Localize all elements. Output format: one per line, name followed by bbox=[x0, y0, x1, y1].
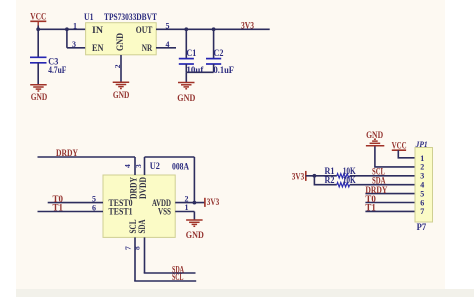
svg-text:P7: P7 bbox=[417, 222, 427, 232]
ground GND (C1/C2) bbox=[178, 83, 195, 89]
svg-text:3V3: 3V3 bbox=[207, 197, 220, 207]
junction C2 node bbox=[212, 27, 216, 31]
wire DVDD loop horizontal bbox=[145, 156, 195, 158]
wire T0 to pin 6 bbox=[365, 202, 415, 204]
svg-text:7: 7 bbox=[420, 207, 424, 216]
svg-text:3V3: 3V3 bbox=[292, 171, 305, 181]
ground GND (C3) bbox=[30, 85, 47, 91]
svg-text:SDA: SDA bbox=[372, 175, 386, 185]
junction node VCC/IN bbox=[36, 27, 40, 31]
wire link to ground bbox=[185, 72, 187, 82]
power port 3V3 (AVDD) bbox=[205, 197, 220, 207]
wire DRDY to pin 5 bbox=[365, 193, 415, 195]
svg-text:VCC: VCC bbox=[392, 140, 407, 150]
svg-text:6: 6 bbox=[420, 198, 424, 207]
junction EN branch bbox=[65, 27, 69, 31]
wire VCC to IN pin bbox=[38, 28, 86, 30]
regulator U1 TPS73033DBVT body bbox=[84, 12, 157, 55]
power port VCC (JP1 pin 1) bbox=[392, 140, 407, 150]
svg-text:DRDY: DRDY bbox=[129, 177, 139, 199]
svg-text:008A: 008A bbox=[172, 162, 189, 172]
wire OUT rail (3V3) bbox=[156, 28, 270, 30]
svg-text:GND: GND bbox=[115, 33, 125, 51]
svg-text:R2: R2 bbox=[325, 175, 335, 185]
svg-text:VCC: VCC bbox=[30, 12, 46, 22]
svg-text:4: 4 bbox=[420, 181, 424, 190]
svg-text:U1: U1 bbox=[84, 12, 94, 22]
svg-text:T1: T1 bbox=[53, 203, 64, 213]
wire VCC stem down to C3 bbox=[37, 26, 39, 58]
svg-text:GND: GND bbox=[113, 90, 130, 100]
svg-text:5: 5 bbox=[420, 189, 424, 198]
svg-text:TPS73033DBVT: TPS73033DBVT bbox=[104, 12, 157, 22]
svg-text:DRDY: DRDY bbox=[56, 148, 78, 158]
svg-text:GND: GND bbox=[186, 230, 204, 240]
svg-text:IN: IN bbox=[92, 25, 104, 35]
svg-text:3: 3 bbox=[420, 172, 424, 181]
wire SDA net horizontal bbox=[144, 272, 196, 274]
wire SCL to pin 3 bbox=[350, 175, 415, 177]
svg-text:C2: C2 bbox=[214, 48, 224, 58]
svg-text:SDA: SDA bbox=[137, 219, 147, 233]
junction C1 node bbox=[184, 27, 188, 31]
wire 3V3 to R1 bbox=[306, 175, 337, 177]
svg-text:GND: GND bbox=[31, 92, 48, 102]
resistor R2 10K bbox=[325, 175, 356, 187]
wire VSS to ground bbox=[175, 211, 194, 213]
wire C3 to ground bbox=[37, 63, 39, 85]
svg-text:8: 8 bbox=[133, 246, 142, 250]
svg-text:SDA: SDA bbox=[172, 264, 184, 274]
junction AVDD node bbox=[193, 201, 197, 205]
wire DRDY net bbox=[38, 156, 136, 158]
svg-text:U2: U2 bbox=[150, 161, 160, 171]
svg-text:3: 3 bbox=[72, 40, 76, 49]
wire SDA stub down (pin 8) bbox=[144, 237, 146, 273]
svg-text:2: 2 bbox=[420, 163, 424, 172]
svg-text:4: 4 bbox=[123, 164, 132, 168]
wire EN branch horizontal bbox=[67, 47, 86, 49]
svg-text:GND: GND bbox=[177, 93, 195, 103]
wire NR pin bbox=[156, 47, 176, 49]
svg-text:T1: T1 bbox=[365, 203, 376, 213]
resistor R1 10K bbox=[325, 166, 356, 178]
svg-text:JP1: JP1 bbox=[415, 140, 428, 149]
svg-text:7: 7 bbox=[124, 246, 133, 250]
wire pin3 stub up bbox=[144, 157, 146, 175]
wire SCL stub down (pin 7) bbox=[134, 237, 136, 281]
IC U2 008A body bbox=[103, 161, 189, 238]
wire C1-C2 bottom link bbox=[186, 71, 213, 73]
svg-text:VSS: VSS bbox=[158, 207, 171, 217]
junction pull-up node bbox=[313, 174, 317, 178]
svg-text:0.1uF: 0.1uF bbox=[214, 65, 235, 75]
wire EN branch vertical bbox=[66, 29, 68, 48]
capacitor C1 bbox=[179, 29, 205, 75]
svg-text:C1: C1 bbox=[186, 48, 196, 58]
wire U1 GND pin down bbox=[120, 55, 122, 82]
svg-text:3V3: 3V3 bbox=[241, 21, 254, 31]
wire T0 net bbox=[48, 202, 103, 204]
wire T1 to pin 7 bbox=[365, 210, 415, 212]
svg-text:10uf: 10uf bbox=[186, 65, 204, 75]
wire SDA to pin 4 bbox=[350, 184, 415, 186]
power port GND (JP1 pin 2, flipped) bbox=[366, 130, 384, 146]
svg-text:OUT: OUT bbox=[136, 25, 153, 35]
capacitor C3 bbox=[30, 57, 67, 76]
wire GND to pin 2 bbox=[375, 146, 415, 167]
wire SCL net horizontal bbox=[134, 280, 196, 282]
wire T1 net bbox=[38, 211, 104, 213]
svg-text:DVDD: DVDD bbox=[138, 177, 148, 199]
wire VCC to pin 1 bbox=[398, 150, 415, 158]
wire AVDD to 3V3 bbox=[175, 202, 205, 204]
svg-text:TEST1: TEST1 bbox=[109, 207, 133, 217]
wire pin4 stub up to DRDY bbox=[134, 157, 136, 175]
ground GND (VSS) bbox=[186, 220, 203, 226]
connector JP1 / P7 body bbox=[415, 140, 433, 232]
svg-text:NR: NR bbox=[142, 43, 153, 53]
wire DVDD loop vertical bbox=[193, 157, 195, 203]
wire branch to R2 bbox=[314, 176, 336, 185]
capacitor C2 bbox=[206, 29, 234, 75]
svg-text:EN: EN bbox=[92, 43, 104, 53]
svg-text:4.7uF: 4.7uF bbox=[48, 65, 66, 75]
svg-text:1: 1 bbox=[420, 154, 424, 163]
power port VCC (input rail) bbox=[30, 12, 46, 26]
ground GND (U1 pin 2) bbox=[113, 82, 130, 88]
power port 3V3 (pull-ups) bbox=[292, 171, 306, 181]
svg-text:1: 1 bbox=[73, 21, 77, 30]
